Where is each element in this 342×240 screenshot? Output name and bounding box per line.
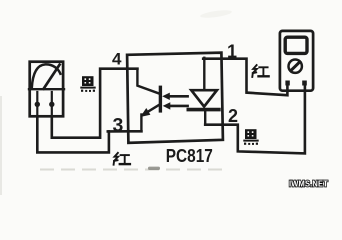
analog meter right terminal (51, 92, 53, 117)
label 红 (red) upper-right near pin 1 wire (252, 65, 268, 77)
label 黑 (black) near pin 2 wire (243, 129, 258, 145)
optocoupler PC817 package outline (127, 53, 223, 143)
analog meter left terminal (36, 92, 38, 117)
LED triangle (191, 90, 217, 106)
LED anode line (203, 58, 205, 90)
LED cathode bar (188, 108, 219, 112)
DMM rotary dial (289, 59, 302, 72)
light arrow upper (pointing left at transistor) (168, 95, 188, 98)
analog meter divider (29, 88, 64, 90)
analog meter needle (44, 65, 60, 89)
faint top-right scan smudge (200, 9, 233, 19)
svg-text:2: 2 (228, 106, 238, 126)
phototransistor emitter lead with arrow (145, 104, 161, 114)
DMM left terminal (285, 81, 289, 86)
wire: meter right terminal to pin 4 (black lead) (52, 69, 138, 138)
digital multimeter body (280, 31, 313, 91)
DMM display (285, 37, 307, 53)
phototransistor collector lead (137, 69, 160, 94)
pin number labels (112, 41, 238, 166)
faint scan smudge line lower area (40, 169, 226, 171)
analog meter scale arc (32, 64, 61, 87)
wire: pin 3 lead into package (108, 130, 142, 133)
phototransistor base bar (159, 87, 162, 111)
analog multimeter body (30, 62, 63, 117)
wire: pin 1 to DMM left terminal (red lead) (203, 59, 287, 95)
wire: pin 2 to DMM right terminal (black lead) (205, 84, 305, 153)
wire: meter left terminal to pin 3 (red lead) (37, 117, 109, 153)
light arrow lower (pointing left at transistor) (168, 105, 187, 108)
LED cathode line (204, 111, 206, 125)
label 黑 (black) near analog meter (80, 76, 95, 92)
svg-text:PC817: PC817 (166, 146, 213, 166)
svg-text:1: 1 (227, 41, 237, 61)
svg-text:4: 4 (112, 49, 122, 68)
faint left edge smudge (0, 96, 2, 195)
label 红 (red) lower-left near pin 3 wire (114, 153, 130, 165)
DMM right terminal (302, 81, 307, 86)
svg-text:IWMS.NET: IWMS.NET (289, 179, 329, 189)
svg-text:3: 3 (113, 115, 124, 137)
